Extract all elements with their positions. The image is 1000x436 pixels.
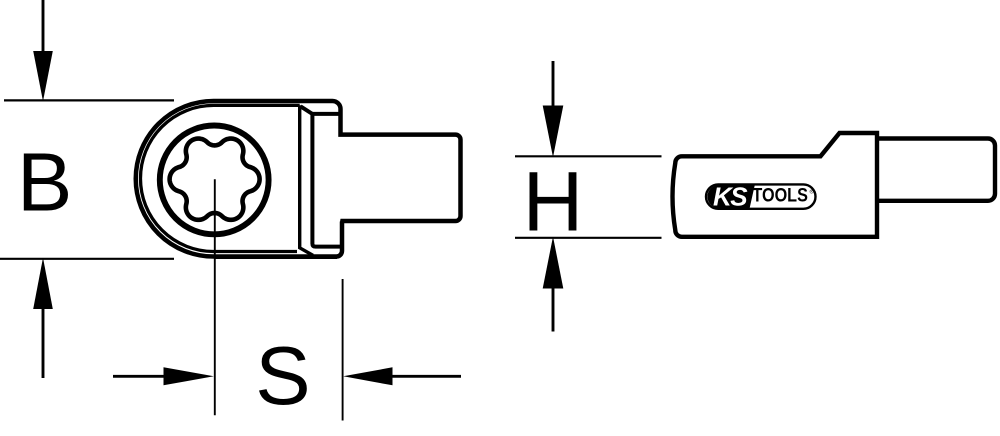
svg-text:KS: KS bbox=[713, 182, 748, 212]
svg-text:®: ® bbox=[810, 189, 814, 196]
svg-text:B: B bbox=[17, 135, 72, 228]
svg-text:S: S bbox=[255, 329, 310, 422]
svg-text:H: H bbox=[523, 155, 584, 249]
svg-text:TOOLS: TOOLS bbox=[752, 186, 808, 207]
